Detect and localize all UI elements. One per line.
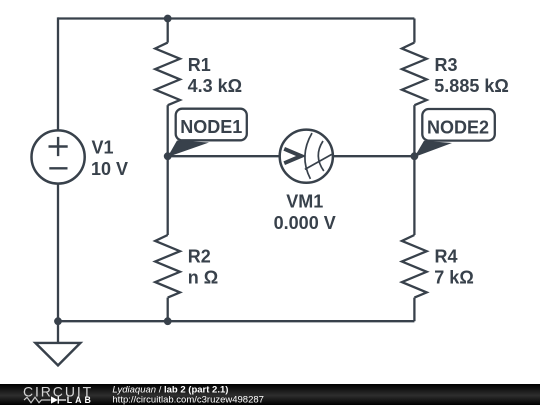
- svg-text:0.000 V: 0.000 V: [274, 213, 336, 233]
- svg-text:http://circuitlab.com/c3ruzew4: http://circuitlab.com/c3ruzew498287: [112, 394, 264, 405]
- wire top rail: [58, 17, 414, 19]
- voltage source V1: [31, 130, 128, 183]
- svg-text:10 V: 10 V: [91, 159, 128, 179]
- svg-text:4.3 kΩ: 4.3 kΩ: [188, 76, 242, 96]
- wire R1 branch top stub: [167, 19, 169, 43]
- svg-text:7 kΩ: 7 kΩ: [434, 268, 473, 288]
- svg-text:LAB: LAB: [67, 395, 94, 405]
- wire right rail top stub: [413, 19, 415, 43]
- svg-text:R2: R2: [188, 247, 211, 267]
- wire voltmeter to NODE2: [332, 155, 414, 157]
- ground: [35, 321, 80, 365]
- wire R2 bottom stub: [167, 298, 169, 322]
- svg-text:R1: R1: [188, 55, 211, 75]
- CircuitLab logo: [23, 383, 94, 405]
- svg-text:V1: V1: [92, 138, 114, 158]
- resistor R4: [402, 235, 474, 298]
- svg-text:VM1: VM1: [286, 192, 323, 212]
- wire left rail lower: [57, 184, 59, 322]
- wire bottom rail: [58, 320, 414, 322]
- wire R4 bottom stub: [413, 298, 415, 322]
- svg-text:n Ω: n Ω: [188, 268, 218, 288]
- resistor R2: [155, 235, 218, 298]
- wire R3 to NODE2: [413, 105, 415, 156]
- wire NODE1 to R2: [167, 156, 169, 235]
- junction top rail / R1: [164, 15, 172, 23]
- wire R1 to NODE1: [167, 105, 169, 156]
- junction bottom rail / R2: [164, 317, 172, 325]
- resistor R1: [155, 43, 242, 106]
- wire NODE2 to R4: [413, 156, 415, 235]
- wire left rail upper: [57, 17, 59, 131]
- voltmeter VM1: [274, 130, 336, 233]
- svg-text:R3: R3: [435, 55, 458, 75]
- svg-text:NODE2: NODE2: [427, 117, 489, 137]
- footer bar: [0, 384, 540, 405]
- junction bottom rail / ground: [54, 317, 62, 325]
- node NODE1: [164, 109, 247, 160]
- svg-text:NODE1: NODE1: [180, 117, 242, 137]
- node NODE2: [411, 109, 495, 160]
- wire NODE1 to voltmeter: [168, 155, 281, 157]
- svg-text:R4: R4: [435, 247, 458, 267]
- svg-text:5.885 kΩ: 5.885 kΩ: [434, 76, 509, 96]
- resistor R3: [402, 43, 509, 106]
